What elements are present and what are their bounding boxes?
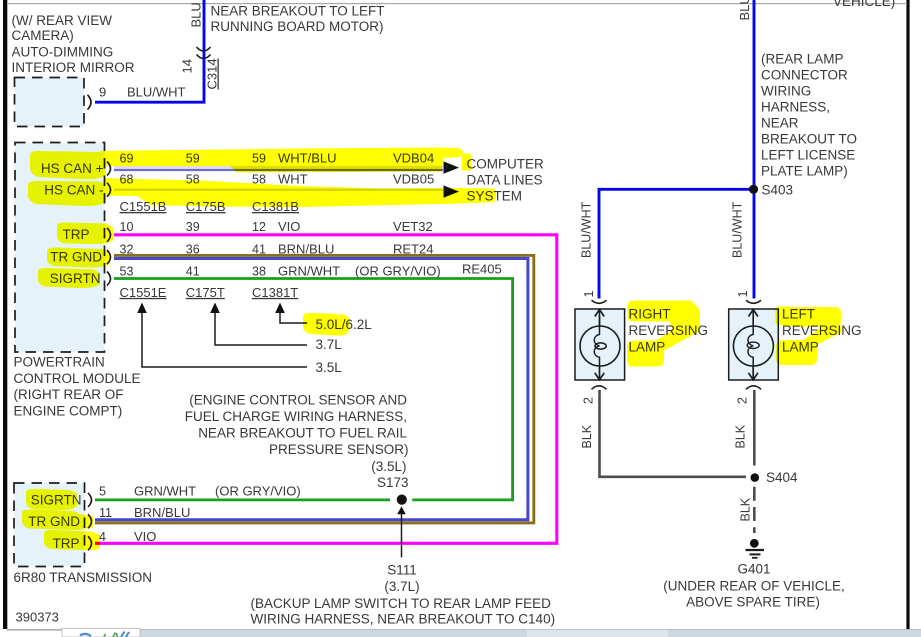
note engine control sensor harness — [185, 393, 409, 491]
svg-text:BRN/BLU: BRN/BLU — [134, 505, 190, 520]
BOTTOM BAR — [62, 628, 921, 637]
svg-text:C1551E: C1551E — [120, 285, 167, 300]
highlight TRP label — [57, 222, 113, 244]
svg-text:GRN/WHT: GRN/WHT — [278, 263, 340, 278]
pin bracket 5 — [88, 493, 92, 507]
svg-text:38: 38 — [252, 264, 266, 278]
svg-text:ENGINE COMPT): ENGINE COMPT) — [14, 403, 123, 418]
svg-text:390373: 390373 — [16, 610, 59, 625]
pin numbers row 4 — [120, 242, 266, 256]
wire VIO (magenta U path) — [95, 235, 557, 544]
svg-text:(W/ REAR VIEW: (W/ REAR VIEW — [12, 13, 113, 28]
highlight HS CAN - wire band — [104, 178, 496, 207]
svg-text:32: 32 — [120, 242, 134, 256]
svg-text:NEAR BREAKOUT TO LEFT: NEAR BREAKOUT TO LEFT — [211, 3, 385, 18]
svg-text:(RIGHT REAR OF: (RIGHT REAR OF — [14, 387, 124, 402]
PCM CIRCUIT — [14, 143, 557, 627]
svg-text:VIO: VIO — [134, 529, 156, 544]
pin bracket 10 — [107, 228, 111, 242]
svg-text:39: 39 — [186, 220, 200, 234]
svg-text:AUTO-DIMMING: AUTO-DIMMING — [12, 44, 114, 59]
wire WHT — [114, 189, 443, 192]
svg-text:DATA LINES: DATA LINES — [467, 172, 543, 187]
right lamp connector arc bottom — [592, 386, 607, 390]
svg-text:(3.7L): (3.7L) — [384, 579, 419, 594]
svg-text:1: 1 — [736, 291, 750, 298]
wire BLU (inner of BRN/BLU pair) — [95, 259, 528, 520]
svg-text:INTERIOR MIRROR: INTERIOR MIRROR — [12, 60, 135, 75]
dashed BLK wire to ground — [753, 487, 756, 533]
svg-text:2: 2 — [736, 397, 750, 404]
caption auto-dimming interior mirror — [12, 13, 135, 75]
splice S404 junction dot — [751, 473, 760, 482]
HIGHLIGHTS (marker annotations) — [22, 148, 842, 551]
pin bracket 69 — [107, 162, 111, 176]
svg-text:5: 5 — [99, 484, 106, 498]
svg-text:BLK: BLK — [739, 497, 753, 521]
svg-text:9: 9 — [99, 84, 106, 99]
svg-text:BRN/BLU: BRN/BLU — [278, 241, 334, 256]
svg-text:BLK: BLK — [580, 424, 594, 448]
TRANSMISSION — [14, 483, 301, 585]
highlight TR GND label — [47, 247, 110, 267]
svg-text:RET24: RET24 — [393, 241, 433, 256]
svg-text:3.7L: 3.7L — [316, 337, 343, 352]
svg-text:BLU: BLU — [189, 2, 204, 27]
LAMPS — [575, 0, 895, 610]
svg-text:CONNECTOR: CONNECTOR — [761, 67, 848, 82]
svg-text:(3.5L): (3.5L) — [371, 459, 406, 474]
wire BLK from left lamp to S404 — [753, 390, 756, 466]
highlight HS CAN + label lobe — [30, 151, 106, 179]
svg-text:PLATE LAMP): PLATE LAMP) — [761, 164, 848, 179]
svg-text:(REAR LAMP: (REAR LAMP — [761, 51, 844, 66]
bottom hairline — [7, 629, 921, 630]
svg-text:BLU/WHT: BLU/WHT — [127, 84, 186, 99]
svg-text:WIRING: WIRING — [761, 84, 811, 99]
top hairline — [7, 3, 907, 4]
inline connector C314 arcs — [197, 47, 211, 59]
splice S403 junction dot — [749, 185, 758, 194]
PCM module box — [15, 143, 105, 353]
left lamp connector arc top — [746, 300, 761, 303]
caption right reversing lamp — [629, 307, 709, 355]
pin bracket 53 — [107, 272, 111, 286]
svg-text:BLU/WHT: BLU/WHT — [731, 201, 745, 258]
svg-text:WIRING HARNESS, NEAR BREAKOUT: WIRING HARNESS, NEAR BREAKOUT TO C140) — [251, 611, 556, 626]
pin numbers row 5 — [120, 264, 266, 278]
callout arrow C1551E to 3.5L — [137, 303, 342, 375]
wire GRN/WHT (green U path) — [95, 279, 513, 500]
svg-text:FUEL CHARGE WIRING HARNESS,: FUEL CHARGE WIRING HARNESS, — [185, 409, 407, 424]
svg-text:3.5L: 3.5L — [316, 360, 343, 375]
svg-text:4: 4 — [99, 530, 106, 544]
svg-text:S173: S173 — [377, 475, 409, 490]
arrowhead VDB04 to computer data lines — [444, 161, 460, 173]
svg-text:RE405: RE405 — [462, 262, 502, 277]
highlight 6R80 TRP label — [44, 530, 100, 550]
wire BRN (outer of BRN/BLU pair) — [95, 255, 534, 523]
svg-text:POWERTRAIN: POWERTRAIN — [14, 355, 105, 370]
branch wire to right lamp — [599, 189, 754, 298]
svg-text:41: 41 — [252, 242, 266, 256]
svg-text:VIO: VIO — [278, 219, 300, 234]
svg-text:10: 10 — [120, 220, 134, 234]
svg-text:G401: G401 — [737, 562, 770, 577]
caption powertrain control module — [14, 355, 141, 419]
svg-text:VET32: VET32 — [393, 219, 433, 234]
svg-text:(UNDER REAR OF VEHICLE,: (UNDER REAR OF VEHICLE, — [663, 579, 845, 594]
svg-text:C1381T: C1381T — [252, 285, 298, 300]
pin numbers row 1 — [120, 151, 266, 165]
svg-text:2: 2 — [582, 397, 596, 404]
left border bar — [3, 0, 7, 629]
pin numbers row 2 — [120, 173, 266, 187]
svg-text:WHT: WHT — [278, 172, 308, 187]
highlight HS CAN + wire band — [100, 148, 463, 173]
left lamp connector arc bottom — [746, 386, 761, 390]
arrowhead VDB05 to computer data lines — [444, 185, 460, 197]
svg-text:PRESSURE SENSOR): PRESSURE SENSOR) — [269, 442, 409, 457]
svg-text:CONTROL MODULE: CONTROL MODULE — [14, 371, 141, 386]
svg-text:BLU/WHT: BLU/WHT — [580, 201, 594, 258]
svg-text:S111: S111 — [387, 562, 417, 577]
highlight 6R80 TR GND label — [22, 509, 93, 530]
caption left reversing lamp — [782, 307, 862, 355]
callout arrow C1381T to 5.0L/6.2L — [275, 303, 372, 332]
right border bar — [906, 0, 909, 629]
svg-text:BREAKOUT TO: BREAKOUT TO — [761, 132, 857, 147]
MIRROR CIRCUIT — [12, 0, 385, 127]
svg-text:(OR GRY/VIO): (OR GRY/VIO) — [215, 483, 301, 498]
svg-text:11: 11 — [99, 506, 112, 520]
connector labels row E/T — [120, 285, 299, 300]
svg-text:12: 12 — [252, 220, 266, 234]
svg-text:1: 1 — [582, 291, 596, 298]
svg-text:(ENGINE CONTROL SENSOR AND: (ENGINE CONTROL SENSOR AND — [189, 393, 407, 408]
right lamp connector arc top — [592, 300, 607, 303]
svg-text:RUNNING BOARD MOTOR): RUNNING BOARD MOTOR) — [211, 19, 384, 34]
pin bracket 68 — [107, 183, 111, 197]
svg-text:GRN/WHT: GRN/WHT — [134, 483, 196, 498]
connector labels row B — [120, 199, 299, 214]
svg-text:C314: C314 — [205, 58, 220, 89]
svg-text:C175T: C175T — [186, 285, 225, 300]
mirror module box — [15, 78, 85, 127]
svg-text:S404: S404 — [766, 470, 798, 485]
pin numbers row 3 — [120, 220, 266, 234]
svg-text:COMPUTER: COMPUTER — [467, 156, 545, 171]
pin bracket 11 — [88, 514, 92, 528]
computer data lines system caption — [467, 156, 545, 203]
note rear lamp connector harness — [761, 51, 857, 178]
svg-text:BLU: BLU — [737, 0, 752, 21]
svg-text:ABOVE SPARE TIRE): ABOVE SPARE TIRE) — [686, 595, 820, 610]
highlight 5.0L — [303, 313, 350, 336]
svg-text:14: 14 — [180, 59, 195, 73]
svg-text:(OR GRY/VIO): (OR GRY/VIO) — [355, 263, 441, 278]
highlight HS CAN - label lobe — [28, 181, 106, 206]
svg-text:HARNESS,: HARNESS, — [761, 100, 830, 115]
wire WHT/BLU (white over blue pair) — [114, 166, 443, 168]
pin 9 connector bracket — [88, 95, 92, 110]
svg-text:VDB05: VDB05 — [393, 172, 434, 187]
left reversing lamp — [729, 309, 779, 380]
note backup lamp switch harness — [251, 596, 556, 626]
callout arrow S111 — [384, 506, 419, 593]
svg-text:53: 53 — [120, 264, 134, 278]
main blue feed wire — [753, 0, 756, 299]
ground location note — [663, 579, 845, 610]
highlight right reversing lamp label — [628, 301, 695, 322]
svg-text:36: 36 — [186, 242, 200, 256]
highlight SIGRTN label — [38, 268, 100, 288]
svg-text:41: 41 — [186, 264, 200, 278]
svg-text:VEHICLE): VEHICLE) — [833, 0, 895, 9]
svg-text:BLK: BLK — [734, 424, 748, 448]
svg-text:NEAR BREAKOUT TO FUEL RAIL: NEAR BREAKOUT TO FUEL RAIL — [198, 426, 407, 441]
svg-text:(BACKUP LAMP SWITCH TO REAR LA: (BACKUP LAMP SWITCH TO REAR LAMP FEED — [251, 596, 552, 611]
highlight 6R80 SIGRTN label — [26, 489, 77, 510]
svg-text:6R80 TRANSMISSION: 6R80 TRANSMISSION — [14, 570, 153, 585]
svg-text:CAMERA): CAMERA) — [12, 28, 74, 43]
pin bracket 4 — [88, 536, 92, 550]
ground G401 symbol — [746, 539, 765, 558]
highlight left reversing lamp label — [776, 307, 792, 326]
note near breakout to left running board motor — [211, 3, 385, 34]
callout arrow C175T to 3.7L — [210, 303, 342, 353]
svg-text:LEFT LICENSE: LEFT LICENSE — [761, 148, 855, 163]
pin bracket 32 — [107, 250, 111, 264]
svg-text:NEAR: NEAR — [761, 116, 799, 131]
svg-text:S403: S403 — [762, 183, 794, 198]
splice S173 junction dot — [397, 495, 407, 505]
right reversing lamp — [575, 309, 625, 380]
wire BLK from right lamp to S404 — [600, 390, 747, 477]
wire blue from mirror to C314 — [95, 0, 204, 102]
6R80 transmission box — [14, 483, 85, 567]
